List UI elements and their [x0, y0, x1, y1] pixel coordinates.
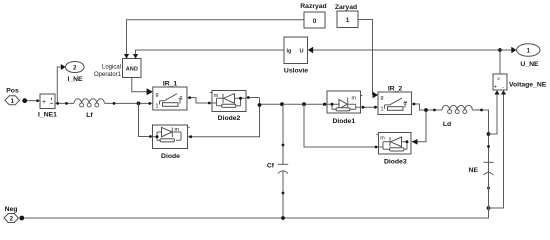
wire junction to Diode3 left	[304, 104, 378, 147]
svg-text:U_NE: U_NE	[520, 61, 539, 68]
svg-text:U: U	[300, 48, 304, 54]
svg-text:Zaryad: Zaryad	[335, 4, 357, 11]
svg-text:Razryad: Razryad	[300, 3, 326, 10]
wire Voltage_NE output up to bus	[499, 50, 501, 74]
diode Diode3 (mirrored)	[376, 133, 411, 166]
svg-text:Operator1: Operator1	[94, 72, 122, 78]
junction node Diode3 branch	[302, 102, 306, 106]
svg-text:+: +	[42, 99, 46, 106]
wire feedback from Razryad to AND	[127, 20, 305, 55]
junction node voltage + tap	[487, 132, 491, 136]
diode Diode	[153, 125, 190, 160]
wire down to Diode	[139, 103, 151, 136]
svg-text:Diode: Diode	[161, 153, 180, 160]
svg-text:Logical: Logical	[102, 64, 121, 70]
wire i-tap up from I_NE1	[57, 67, 61, 103]
svg-text:Cf: Cf	[267, 163, 275, 170]
svg-text:Lf: Lf	[86, 112, 93, 119]
wire to Voltage_NE + input	[489, 94, 498, 135]
wire IR_2 out to Ld	[412, 104, 443, 110]
wire Pos to I_NE1	[27, 100, 40, 102]
arrow into U_NE port	[511, 47, 516, 53]
wire from Ld node down into Diode3 right	[418, 110, 427, 142]
current measurement I_NE1	[38, 94, 57, 119]
arrow into Voltage_NE +	[494, 90, 499, 94]
junction dot after Pos	[22, 98, 27, 103]
arrow into AND input a	[124, 54, 129, 59]
svg-text:m: m	[352, 96, 357, 102]
svg-text:Diode2: Diode2	[218, 115, 241, 122]
junction node at Diode2/Diode	[258, 103, 262, 107]
svg-text:1: 1	[156, 103, 159, 109]
junction node voltage - tap	[487, 206, 491, 210]
inductor Ld	[442, 105, 472, 128]
wire Lf to IR_1	[104, 102, 152, 104]
capacitor NE (energy storage)	[469, 145, 494, 218]
junction node at Ld branch	[424, 108, 428, 112]
constant Zaryad	[335, 4, 358, 28]
node Pos input port 1	[5, 88, 20, 105]
arrow into IR_1 g	[147, 88, 153, 95]
svg-text:0: 0	[313, 18, 317, 25]
wire main mid bus	[260, 103, 328, 105]
subsystem Uslovie	[284, 37, 308, 75]
wire feedback from Uslovie to AND	[136, 50, 285, 54]
svg-text:m: m	[380, 136, 385, 142]
svg-text:g: g	[381, 95, 384, 101]
svg-text:I_NE1: I_NE1	[38, 112, 57, 119]
junction node to Diode branch	[137, 102, 141, 106]
svg-text:1: 1	[381, 107, 384, 113]
svg-text:Uslovie: Uslovie	[284, 68, 308, 75]
wire IR_1 out to Diode2	[187, 98, 212, 103]
svg-text:>: >	[497, 77, 500, 83]
svg-text:I_NE: I_NE	[67, 76, 83, 83]
logical operator AND (Logical Operator1)	[94, 59, 141, 78]
wire Ld to NE branch	[472, 110, 488, 162]
svg-text:Diode1: Diode1	[332, 118, 355, 125]
inductor Lf	[74, 99, 104, 119]
arrow into I_NE port	[61, 64, 66, 70]
svg-text:Diode3: Diode3	[384, 159, 407, 166]
ideal switch IR_2	[378, 86, 412, 115]
wire Diode1 to IR_2	[361, 106, 378, 108]
svg-text:+: +	[494, 85, 497, 91]
svg-text:Pos: Pos	[6, 88, 19, 95]
svg-text:-: -	[502, 85, 504, 91]
wire I_NE1 to Lf	[55, 102, 74, 104]
wire from Voltage_NE junction to Uslovie	[313, 49, 500, 51]
wire to U_NE port	[500, 49, 512, 51]
svg-text:Ld: Ld	[443, 121, 451, 128]
arrow into Uslovie U input	[308, 47, 313, 53]
diode Diode2 (mirrored)	[210, 91, 246, 122]
arrow into AND input b	[133, 54, 138, 59]
wire Zaryad to IR_2 gate	[358, 20, 373, 96]
node I_NE output port 2	[66, 62, 85, 83]
junction node Cf branch	[280, 102, 284, 106]
wire to Voltage_NE - input	[489, 94, 504, 209]
svg-text:NE: NE	[469, 167, 479, 174]
wire bottom rail	[24, 162, 489, 218]
wire Diode out up to mid node	[188, 98, 260, 137]
svg-text:Neg: Neg	[5, 206, 18, 213]
diode Diode1	[327, 91, 363, 125]
junction dot after Neg	[19, 216, 24, 221]
node U_NE output port 1	[517, 44, 540, 68]
arrow into Voltage_NE -	[501, 90, 506, 94]
svg-text:1: 1	[346, 17, 350, 24]
svg-text:g: g	[156, 92, 159, 98]
constant Razryad	[300, 3, 326, 28]
svg-text:Voltage_NE: Voltage_NE	[509, 81, 547, 88]
junction dot Cf on rail	[281, 216, 285, 220]
svg-text:lg: lg	[287, 48, 293, 54]
ideal switch IR_1	[153, 81, 187, 110]
capacitor Cf branch	[267, 104, 288, 218]
wire Diode2 out to mid node	[246, 97, 260, 99]
wire AND output to IR_1 gate	[132, 78, 147, 92]
node Neg input port 2	[4, 206, 19, 223]
junction node U_NE	[498, 48, 502, 52]
voltage measurement Voltage_NE	[493, 74, 547, 91]
svg-text:AND: AND	[126, 67, 138, 73]
arrow into IR_2 g	[373, 92, 378, 98]
